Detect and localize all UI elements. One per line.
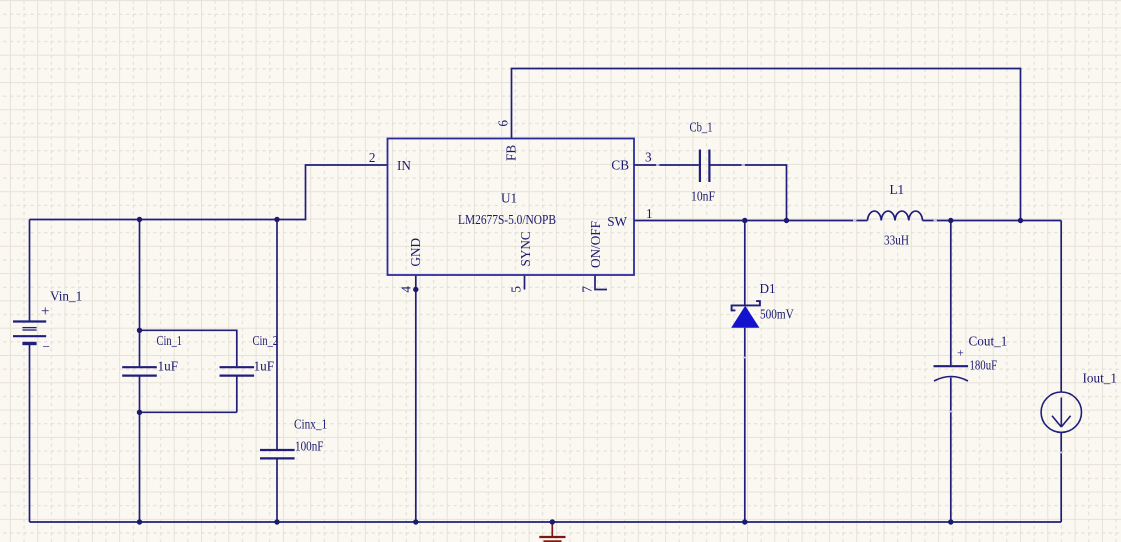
svg-text:D1: D1 xyxy=(760,281,776,296)
svg-text:1uF: 1uF xyxy=(254,358,275,373)
svg-text:+: + xyxy=(957,346,964,360)
svg-text:Cin_1: Cin_1 xyxy=(157,333,183,348)
svg-text:+: + xyxy=(41,304,49,320)
svg-text:180uF: 180uF xyxy=(970,358,998,373)
svg-text:Cinx_1: Cinx_1 xyxy=(294,417,327,432)
svg-text:LM2677S-5.0/NOPB: LM2677S-5.0/NOPB xyxy=(458,212,556,227)
svg-text:Vin_1: Vin_1 xyxy=(50,289,82,304)
svg-text:1: 1 xyxy=(646,206,653,221)
svg-text:IN: IN xyxy=(397,158,411,173)
svg-text:CB: CB xyxy=(611,158,629,173)
svg-text:Cin_2: Cin_2 xyxy=(253,333,279,348)
svg-text:10nF: 10nF xyxy=(691,189,715,204)
svg-text:2: 2 xyxy=(369,150,376,165)
svg-text:7: 7 xyxy=(579,286,594,293)
svg-text:1uF: 1uF xyxy=(158,358,179,373)
svg-text:5: 5 xyxy=(508,286,523,293)
svg-text:SYNC: SYNC xyxy=(518,231,533,266)
svg-text:500mV: 500mV xyxy=(760,306,794,321)
svg-text:4: 4 xyxy=(398,286,413,293)
svg-text:Cout_1: Cout_1 xyxy=(969,333,1008,348)
svg-text:−: − xyxy=(43,339,50,354)
svg-text:100nF: 100nF xyxy=(295,439,324,454)
svg-text:6: 6 xyxy=(495,120,510,127)
svg-text:Cb_1: Cb_1 xyxy=(690,120,713,135)
svg-text:3: 3 xyxy=(645,150,652,165)
svg-text:GND: GND xyxy=(408,238,423,267)
svg-text:33uH: 33uH xyxy=(884,233,909,248)
svg-text:U1: U1 xyxy=(501,191,517,206)
svg-text:L1: L1 xyxy=(890,182,905,197)
svg-text:ON/OFF: ON/OFF xyxy=(588,221,603,268)
svg-text:Iout_1: Iout_1 xyxy=(1083,370,1117,385)
svg-text:FB: FB xyxy=(504,145,519,161)
svg-text:SW: SW xyxy=(607,214,627,229)
